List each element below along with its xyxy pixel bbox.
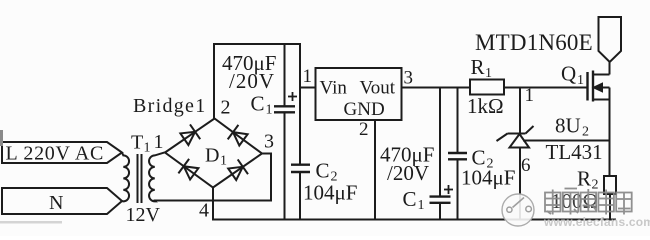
svg-text:N: N [49, 192, 63, 214]
svg-text:104μF: 104μF [461, 166, 515, 190]
svg-text:/20V: /20V [387, 161, 429, 185]
svg-text:1: 1 [266, 103, 273, 118]
svg-text:1: 1 [577, 73, 584, 88]
svg-text:1kΩ: 1kΩ [467, 94, 504, 118]
svg-text:12V: 12V [126, 204, 161, 226]
svg-text:T: T [131, 132, 143, 154]
svg-text:2: 2 [221, 97, 231, 119]
svg-text:TL431: TL431 [546, 140, 603, 164]
svg-text:1: 1 [525, 85, 535, 106]
svg-text:www.elecfans.com: www.elecfans.com [543, 215, 650, 229]
svg-text:1: 1 [144, 141, 151, 156]
svg-text:L 220V AC: L 220V AC [6, 143, 105, 165]
svg-text:1: 1 [303, 66, 313, 87]
svg-text:C: C [403, 187, 417, 211]
svg-text:R: R [471, 55, 485, 79]
svg-text:2: 2 [359, 119, 369, 140]
svg-text:C: C [316, 159, 330, 183]
svg-text:MTD1N60E: MTD1N60E [475, 30, 593, 55]
svg-text:1: 1 [220, 154, 227, 169]
svg-text:2: 2 [582, 125, 589, 140]
svg-text:3: 3 [264, 131, 274, 153]
svg-text:C: C [251, 92, 265, 116]
svg-text:1: 1 [485, 66, 492, 81]
svg-text:Bridge1: Bridge1 [133, 95, 207, 117]
svg-text:8U: 8U [555, 114, 581, 138]
svg-text:/20V: /20V [229, 69, 275, 93]
svg-text:Vin: Vin [320, 78, 348, 99]
svg-text:3: 3 [404, 68, 414, 89]
svg-text:Vout: Vout [360, 78, 396, 99]
svg-text:R: R [577, 167, 591, 191]
svg-text:GND: GND [344, 99, 385, 120]
svg-text:Q: Q [561, 62, 576, 86]
svg-text:1: 1 [418, 198, 425, 213]
svg-text:1: 1 [154, 131, 164, 153]
svg-text:D: D [205, 145, 219, 167]
svg-text:6: 6 [521, 155, 531, 176]
svg-text:104μF: 104μF [303, 181, 357, 205]
